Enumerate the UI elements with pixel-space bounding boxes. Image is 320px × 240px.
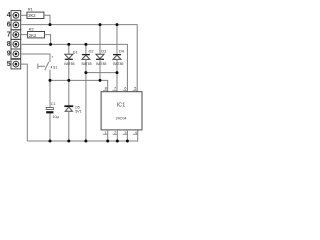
connector pin 4 socket [11,11,21,21]
junction node IC pin2/ground [116,140,119,143]
junction node C1/ground [49,140,52,143]
svg-text:6: 6 [7,22,11,29]
junction node R1/net A [49,23,52,26]
junction node D2/pin7 wire [84,71,87,74]
wire pin9 to switch S1 [21,54,50,62]
junction node R2/net B [49,43,52,46]
diode D2 (BAT85) [82,44,90,141]
wire D2 anode to D4 anode / IC pin7 [86,72,117,74]
svg-text:S1: S1 [53,66,57,70]
svg-text:7: 7 [7,31,11,38]
pin number tick 4 [133,133,138,135]
junction node IC pin1/ground [106,140,109,143]
wire pin4 to R1 [21,14,27,16]
connector pin 7 socket [11,30,21,40]
junction node D5/net C [67,79,70,82]
connector pin 9 socket [11,49,21,59]
svg-text:D3: D3 [101,49,107,54]
diode D1 (BAT85) [65,44,73,80]
svg-text:D4: D4 [119,49,125,54]
resistor R2 box [28,32,45,38]
wire pin7 to R2 [21,34,28,36]
wire S1 to net C [49,70,51,81]
IC1 box [101,92,142,130]
wire R2 to net B corner [45,35,51,45]
svg-text:BAT85: BAT85 [96,62,106,66]
junction node D5/ground [67,140,70,143]
svg-text:BAT85: BAT85 [113,62,123,66]
zener diode D5 [64,80,73,141]
connector pin 5 socket [11,59,21,69]
IC1 bottom pin 1 stub [107,130,109,141]
junction node D2/net B [84,43,87,46]
net B: pin8 / SCL line to IC pin6 [21,44,128,91]
svg-text:BAT85: BAT85 [64,62,74,66]
pin number tick 7 [112,89,117,91]
svg-text:R1: R1 [28,6,34,11]
junction node D4/pin7 wire [116,71,119,74]
svg-text:D1: D1 [73,49,79,54]
svg-text:R2: R2 [29,27,35,32]
capacitor C1 (electrolytic) [46,108,53,114]
diode D3 (BAT85) [96,25,104,81]
pin number tick 8 [103,89,108,91]
junction node D1/net B [67,43,70,46]
connector pin 6 socket [11,20,21,30]
svg-text:9: 9 [7,51,11,58]
svg-text:8: 8 [7,41,11,48]
wire C1 to ground rail [49,113,51,141]
svg-text:2K2: 2K2 [28,13,36,18]
pin number tick 6 [123,89,128,91]
wire pin5 to ground rail [21,64,28,141]
pin number tick 1 [103,133,108,135]
ground rail [27,130,137,141]
junction node S1/net C [49,79,52,82]
junction node IC pin3/ground [126,140,129,143]
IC1 bottom pin 3 stub [126,130,128,141]
svg-text:5V1: 5V1 [75,109,81,113]
junction node D3/net C [99,79,102,82]
pin number tick 5 [133,89,138,91]
svg-text:10µ: 10µ [52,115,59,119]
wire R1 to net A corner [44,15,50,24]
svg-text:24C04: 24C04 [116,116,127,120]
diode D4 (BAT85) [113,25,121,92]
pin number tick 2 [113,133,118,135]
svg-text:BAT85: BAT85 [82,62,92,66]
junction node D3/net A [99,23,102,26]
IC1 bottom pin 2 stub [116,130,118,141]
net C: supply rail to IC pin8 [50,80,108,91]
net A: pin6 / SDA line to IC pin5 [21,25,138,92]
svg-text:4: 4 [7,12,11,19]
svg-text:IC1: IC1 [117,103,125,109]
svg-text:2K2: 2K2 [29,33,37,38]
pin number tick 3 [123,133,128,135]
junction node D2/ground [84,140,87,143]
switch S1 [38,56,53,70]
wire net C to capacitor C1 [49,80,51,107]
svg-text:D2: D2 [89,48,95,53]
junction node D4/net A [116,23,119,26]
connector pin 8 socket [11,39,21,49]
resistor R1 box [27,12,44,18]
svg-text:5: 5 [7,61,11,68]
svg-text:C1: C1 [51,102,56,106]
